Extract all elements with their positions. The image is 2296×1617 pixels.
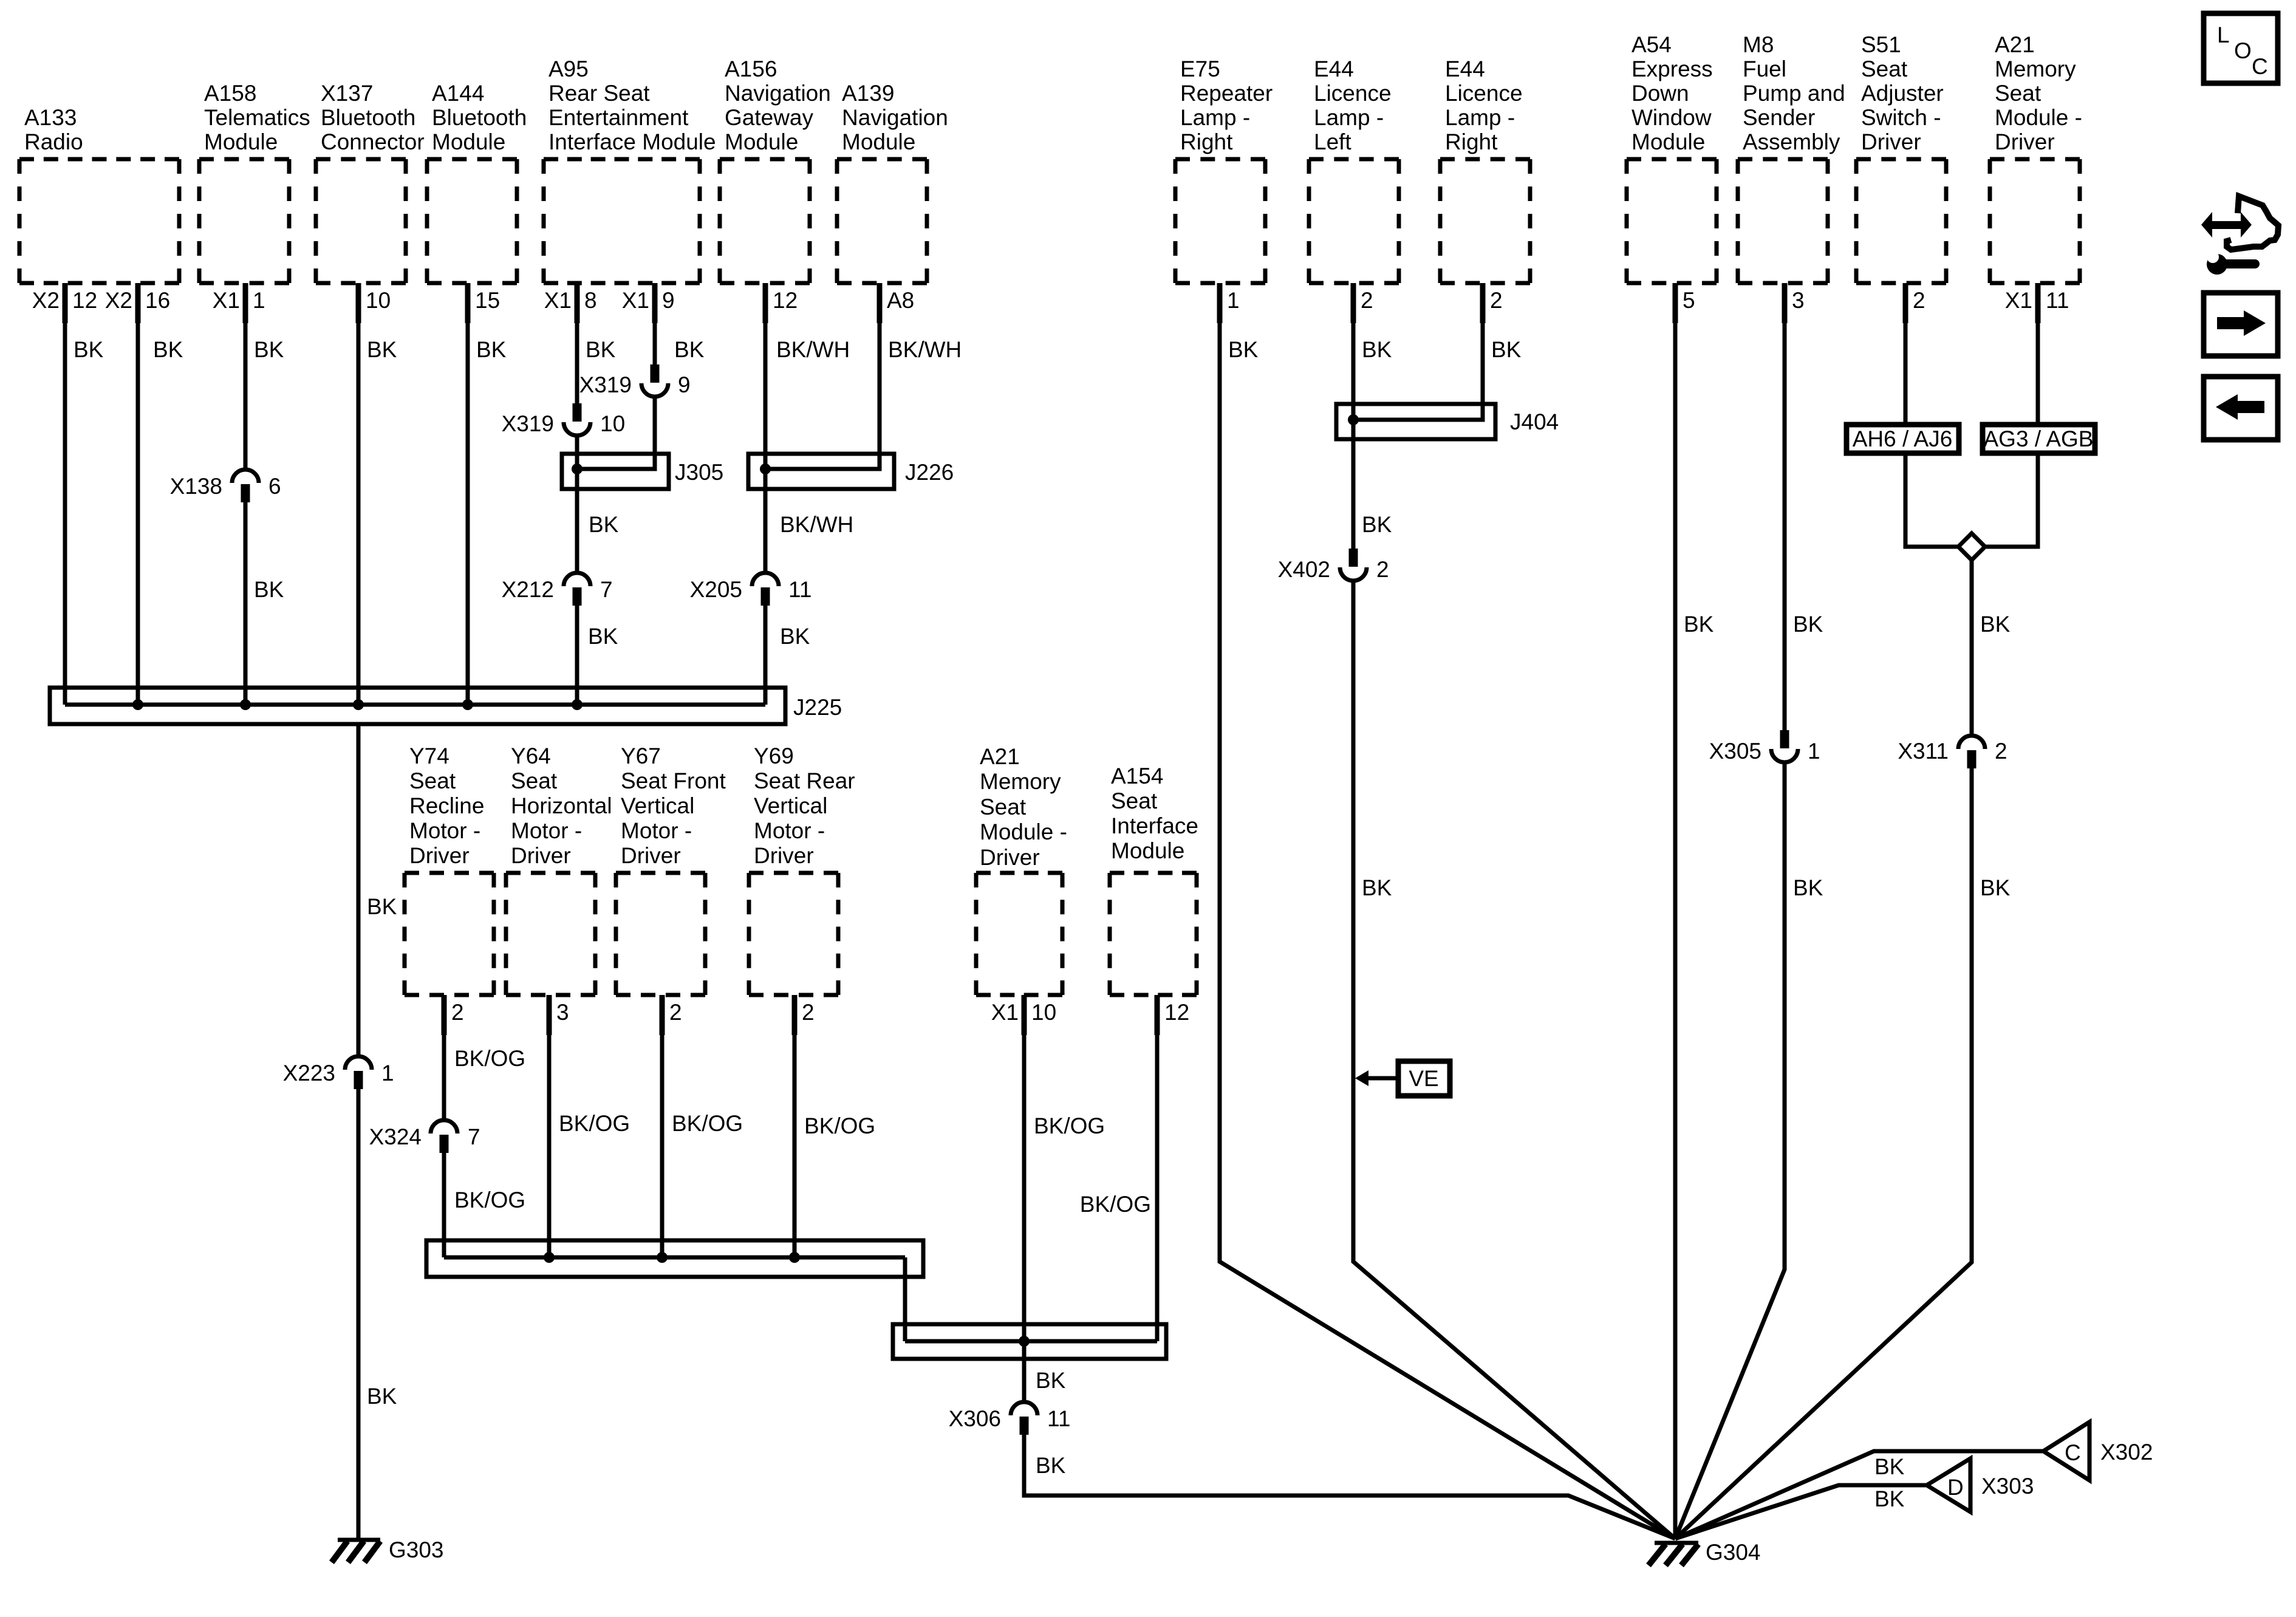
svg-text:C: C <box>2252 54 2268 79</box>
svg-text:Sender: Sender <box>1743 105 1815 130</box>
svg-text:Assembly: Assembly <box>1743 129 1840 154</box>
module Y64 Seat Horizontal Motor - Driver (dashed box) <box>506 744 612 995</box>
svg-text:BK: BK <box>254 577 284 602</box>
svg-text:10: 10 <box>1031 1000 1056 1025</box>
svg-text:Motor -: Motor - <box>754 818 825 843</box>
svg-text:BK: BK <box>1362 337 1392 362</box>
inline connector X402 pin 2 <box>1278 549 1389 582</box>
svg-text:Driver: Driver <box>511 843 571 868</box>
svg-text:Driver: Driver <box>621 843 681 868</box>
svg-text:Adjuster: Adjuster <box>1861 81 1944 106</box>
module A21 Memory Seat Module - Driver lower (dashed box) <box>976 744 1067 995</box>
svg-text:BK/OG: BK/OG <box>559 1111 630 1136</box>
svg-text:X2: X2 <box>105 288 132 313</box>
module A154 Seat Interface Module (dashed box) <box>1110 764 1198 995</box>
svg-text:Module -: Module - <box>1995 105 2082 130</box>
svg-text:Recline: Recline <box>409 793 484 818</box>
svg-text:2: 2 <box>669 1000 682 1025</box>
junction dot A21 on bus2 <box>1019 1336 1030 1347</box>
svg-text:BK: BK <box>476 337 507 362</box>
wire A154-12 to bus2 <box>1155 995 1160 1341</box>
wire X138 to J225 <box>244 502 248 705</box>
svg-text:BK: BK <box>1874 1454 1905 1479</box>
wire A95 X1-9 to X319 <box>653 283 657 364</box>
svg-text:2: 2 <box>1376 557 1389 582</box>
svg-text:Pump and: Pump and <box>1743 81 1845 106</box>
module A144 Bluetooth Module (dashed box) <box>427 81 527 283</box>
svg-text:15: 15 <box>475 288 500 313</box>
svg-text:Memory: Memory <box>980 769 1061 794</box>
svg-text:Seat: Seat <box>1995 81 2041 106</box>
svg-text:Module: Module <box>432 129 505 154</box>
svg-text:Down: Down <box>1631 81 1689 106</box>
fuse box code AH6 / AJ6 <box>1847 425 1959 453</box>
wire A54-5 to G304 <box>1673 283 1678 1539</box>
svg-text:X311: X311 <box>1898 739 1949 764</box>
svg-text:X402: X402 <box>1278 557 1330 582</box>
wire E44 right pin 2 into J404 <box>1356 283 1483 420</box>
svg-text:J225: J225 <box>793 695 842 720</box>
svg-text:Module: Module <box>725 129 798 154</box>
ground G304 <box>1649 1540 1761 1565</box>
svg-text:BK: BK <box>1793 612 1823 637</box>
svg-text:11: 11 <box>788 577 811 602</box>
svg-text:Driver: Driver <box>1861 129 1921 154</box>
wire Y64-3 to Y-bus <box>547 995 552 1257</box>
svg-text:BK: BK <box>73 337 104 362</box>
svg-text:16: 16 <box>145 288 170 313</box>
svg-text:D: D <box>1947 1475 1964 1500</box>
svg-text:Driver: Driver <box>754 843 814 868</box>
svg-text:BK: BK <box>780 624 810 649</box>
splice J226 <box>748 454 954 489</box>
svg-text:E44: E44 <box>1445 56 1485 81</box>
module A133 Radio (dashed box) <box>19 105 179 283</box>
wire A156-12 to J226 <box>764 283 768 571</box>
wire Y69-2 to Y-bus <box>793 995 797 1257</box>
module E75 Repeater Lamp - Right (dashed box) <box>1175 56 1273 283</box>
module A21 Memory Seat Module - Driver (dashed box) <box>1990 32 2082 283</box>
module S51 Seat Adjuster Switch - Driver (dashed box) <box>1856 32 1946 283</box>
junction dot A133-16 on J225 <box>132 699 143 710</box>
svg-text:Motor -: Motor - <box>511 818 582 843</box>
svg-text:9: 9 <box>678 372 691 397</box>
svg-text:Driver: Driver <box>409 843 470 868</box>
svg-text:BK/OG: BK/OG <box>804 1113 875 1138</box>
svg-text:6: 6 <box>268 474 281 499</box>
svg-text:BK: BK <box>1684 612 1714 637</box>
junction dot X137 on J225 <box>353 699 364 710</box>
svg-text:Rear Seat: Rear Seat <box>548 81 650 106</box>
svg-text:Repeater: Repeater <box>1180 81 1273 106</box>
svg-text:Right: Right <box>1180 129 1233 154</box>
junction dot Y64 <box>544 1252 555 1263</box>
svg-text:Y69: Y69 <box>754 744 794 768</box>
svg-text:BK: BK <box>1228 337 1259 362</box>
inline connector X212 pin 7 <box>502 573 613 606</box>
svg-text:X212: X212 <box>502 577 554 602</box>
svg-text:Horizontal: Horizontal <box>511 793 612 818</box>
wire X402 to G304 <box>1353 583 1675 1539</box>
module A139 Navigation Module (dashed box) <box>837 81 948 283</box>
svg-text:Licence: Licence <box>1445 81 1523 106</box>
svg-text:BK/OG: BK/OG <box>672 1111 743 1136</box>
inline connector X319 pin 9 <box>579 364 691 397</box>
svg-text:E44: E44 <box>1314 56 1354 81</box>
wire E44 left pin 2 through J404 <box>1351 283 1356 549</box>
svg-text:X138: X138 <box>170 474 222 499</box>
svg-text:AG3 / AGB: AG3 / AGB <box>1984 426 2094 451</box>
inline connector X306 pin 11 <box>949 1402 1071 1435</box>
ground bus 2 <box>893 1324 1166 1359</box>
wire J225 to X223 <box>357 724 361 1055</box>
vehicle icon with arrows and wrench <box>2201 196 2278 275</box>
svg-text:Module: Module <box>204 129 278 154</box>
pin X2 16 of A133 <box>105 288 170 313</box>
svg-text:Motor -: Motor - <box>621 818 692 843</box>
svg-text:BK/WH: BK/WH <box>776 337 850 362</box>
svg-text:E75: E75 <box>1180 56 1220 81</box>
pin X1 9 of A95 <box>622 288 675 313</box>
svg-text:BK: BK <box>674 337 705 362</box>
module X137 Bluetooth Connector (dashed box) <box>316 81 425 283</box>
svg-text:A144: A144 <box>432 81 484 106</box>
ground bus of seat motors <box>426 1240 923 1277</box>
svg-text:BK: BK <box>586 337 616 362</box>
LOC legend box <box>2204 13 2278 83</box>
svg-text:Driver: Driver <box>980 845 1040 870</box>
wire E75-1 down to G304 <box>1220 283 1675 1539</box>
svg-text:3: 3 <box>556 1000 569 1025</box>
svg-text:X303: X303 <box>1981 1474 2034 1499</box>
svg-text:BK: BK <box>254 337 284 362</box>
wire to connector D X303 <box>1675 1485 1927 1539</box>
svg-text:A156: A156 <box>725 56 777 81</box>
svg-text:Bluetooth: Bluetooth <box>321 105 415 130</box>
module A95 Rear Seat Entertainment Interface Module (dashed box) <box>544 56 716 283</box>
wire M8-3 to X305 <box>1783 283 1787 730</box>
svg-text:X319: X319 <box>502 411 554 436</box>
pin X2 12 of A133 <box>32 288 97 313</box>
svg-text:Interface: Interface <box>1111 813 1198 838</box>
junction dot X212 wire on J225 <box>572 699 583 710</box>
pin X1 11 of A21 <box>2005 288 2069 313</box>
svg-text:BK: BK <box>367 337 397 362</box>
svg-text:BK: BK <box>1980 875 2011 900</box>
svg-text:BK: BK <box>1362 512 1392 537</box>
wire A133 X2-16 to J225 <box>136 283 140 705</box>
svg-text:Module: Module <box>1631 129 1705 154</box>
wire Y74-2 to X324 <box>442 995 446 1118</box>
svg-text:2: 2 <box>1490 288 1503 313</box>
svg-text:Seat: Seat <box>511 768 558 793</box>
svg-text:A21: A21 <box>1995 32 2035 57</box>
svg-text:A95: A95 <box>548 56 589 81</box>
merge diamond <box>1958 533 1985 560</box>
svg-text:1: 1 <box>381 1061 394 1085</box>
svg-text:AH6 / AJ6: AH6 / AJ6 <box>1853 426 1953 451</box>
svg-text:Y74: Y74 <box>409 744 449 768</box>
svg-text:Seat Front: Seat Front <box>621 768 726 793</box>
svg-text:Fuel: Fuel <box>1743 56 1786 81</box>
svg-text:Licence: Licence <box>1314 81 1392 106</box>
svg-text:A154: A154 <box>1111 764 1163 788</box>
svg-text:Seat: Seat <box>980 795 1027 819</box>
inline connector X311 pin 2 <box>1898 736 2007 768</box>
wire X306 to G304 <box>1024 1435 1675 1539</box>
svg-text:BK/OG: BK/OG <box>1080 1192 1151 1217</box>
svg-text:Bluetooth: Bluetooth <box>432 105 527 130</box>
svg-text:X205: X205 <box>690 577 742 602</box>
svg-text:1: 1 <box>1808 739 1820 764</box>
svg-text:Y67: Y67 <box>621 744 661 768</box>
junction dot Y69 <box>789 1252 800 1263</box>
svg-text:Navigation: Navigation <box>725 81 831 106</box>
svg-text:X319: X319 <box>579 372 632 397</box>
svg-text:BK: BK <box>1036 1368 1066 1393</box>
svg-text:Seat: Seat <box>1111 788 1158 813</box>
svg-text:C: C <box>2065 1440 2081 1465</box>
svg-text:Telematics: Telematics <box>204 105 310 130</box>
pin X1 1 of A158 <box>213 288 265 313</box>
svg-text:J305: J305 <box>675 460 723 485</box>
svg-text:X306: X306 <box>949 1406 1001 1431</box>
svg-text:7: 7 <box>600 577 613 602</box>
inline connector X319 pin 10 <box>502 403 626 436</box>
inline connector X138 pin 6 <box>170 470 281 502</box>
svg-text:X1: X1 <box>544 288 572 313</box>
wire A21 X1-11 to diamond <box>1984 283 2038 547</box>
wire X311 to G304 <box>1675 768 1972 1539</box>
svg-text:X1: X1 <box>2005 288 2032 313</box>
svg-text:8: 8 <box>584 288 597 313</box>
svg-text:J404: J404 <box>1510 409 1559 434</box>
pin X1 8 of A95 <box>544 288 597 313</box>
svg-text:A133: A133 <box>24 105 77 130</box>
svg-text:BK: BK <box>153 337 183 362</box>
svg-text:X1: X1 <box>213 288 240 313</box>
ground G303 <box>332 1537 444 1562</box>
svg-text:7: 7 <box>468 1124 480 1149</box>
svg-text:BK: BK <box>1793 875 1823 900</box>
svg-text:A158: A158 <box>204 81 256 106</box>
inline connector X305 pin 1 <box>1709 730 1820 764</box>
wire A144-15 to J225 <box>466 283 470 705</box>
svg-text:Switch -: Switch - <box>1861 105 1941 130</box>
svg-text:BK: BK <box>1874 1486 1905 1511</box>
svg-text:Window: Window <box>1631 105 1712 130</box>
module Y69 Seat Rear Vertical Motor - Driver (dashed box) <box>749 744 855 995</box>
wire X324 to Y-bus <box>442 1153 446 1257</box>
pin X1 10 of A21 lower <box>991 1000 1056 1025</box>
svg-text:BK: BK <box>588 624 618 649</box>
svg-text:Memory: Memory <box>1995 56 2076 81</box>
wire to connector C X302 <box>1675 1451 2043 1539</box>
svg-text:BK/OG: BK/OG <box>454 1188 525 1212</box>
module A54 Express Down Window Module (dashed box) <box>1627 32 1717 283</box>
svg-text:X324: X324 <box>369 1124 422 1149</box>
svg-text:5: 5 <box>1683 288 1695 313</box>
svg-text:Vertical: Vertical <box>754 793 827 818</box>
inline connector X324 pin 7 <box>369 1120 480 1153</box>
svg-text:BK: BK <box>1980 612 2011 637</box>
wire A21 lower X1-10 down <box>1022 995 1027 1400</box>
svg-text:2: 2 <box>1913 288 1925 313</box>
wire X319-9 down into J305 <box>579 398 655 469</box>
svg-text:M8: M8 <box>1743 32 1774 57</box>
svg-text:10: 10 <box>366 288 391 313</box>
wire X223 to G303 <box>357 1089 361 1540</box>
svg-text:Express: Express <box>1631 56 1713 81</box>
wire Y67-2 to Y-bus <box>660 995 665 1257</box>
svg-text:Left: Left <box>1314 129 1351 154</box>
svg-text:Connector: Connector <box>321 129 425 154</box>
svg-text:2: 2 <box>1361 288 1373 313</box>
svg-text:12: 12 <box>1164 1000 1189 1025</box>
svg-text:Interface Module: Interface Module <box>548 129 716 154</box>
svg-text:Module: Module <box>1111 838 1184 863</box>
splice J305 <box>562 454 723 489</box>
svg-text:3: 3 <box>1792 288 1805 313</box>
wire Y-bus jog to seat bus 2 <box>903 1257 907 1341</box>
svg-text:10: 10 <box>600 411 625 436</box>
svg-text:Right: Right <box>1445 129 1498 154</box>
wire A158 X1-1 to X138 <box>244 283 248 468</box>
svg-text:Lamp -: Lamp - <box>1445 105 1515 130</box>
connector pin stubs <box>63 283 2041 1035</box>
wire J305 to X212 <box>575 489 579 571</box>
svg-text:Entertainment: Entertainment <box>548 105 689 130</box>
svg-text:12: 12 <box>72 288 97 313</box>
wire X205 to J225 <box>764 606 768 705</box>
module Y74 Seat Recline Motor - Driver (dashed box) <box>405 744 494 995</box>
svg-text:X2: X2 <box>32 288 60 313</box>
svg-text:11: 11 <box>1047 1406 1070 1431</box>
svg-text:A54: A54 <box>1631 32 1672 57</box>
svg-text:2: 2 <box>1995 739 2007 764</box>
svg-text:BK: BK <box>367 894 397 919</box>
svg-text:X302: X302 <box>2100 1440 2153 1465</box>
svg-text:A139: A139 <box>842 81 894 106</box>
svg-text:Module: Module <box>842 129 915 154</box>
svg-text:Seat: Seat <box>409 768 456 793</box>
svg-text:BK: BK <box>1362 875 1392 900</box>
svg-text:BK: BK <box>589 512 619 537</box>
wire S51-2 to diamond <box>1905 283 1959 547</box>
backward arrow box <box>2204 377 2278 440</box>
svg-text:L: L <box>2217 22 2230 47</box>
svg-text:Module -: Module - <box>980 819 1067 844</box>
module E44 Licence Lamp - Right (dashed box) <box>1440 56 1530 283</box>
module A156 Navigation Gateway Module (dashed box) <box>720 56 831 283</box>
svg-text:Vertical: Vertical <box>621 793 694 818</box>
svg-text:O: O <box>2234 38 2252 63</box>
svg-text:BK/WH: BK/WH <box>888 337 962 362</box>
svg-text:Lamp -: Lamp - <box>1314 105 1384 130</box>
svg-text:BK: BK <box>367 1384 397 1409</box>
svg-text:Seat Rear: Seat Rear <box>754 768 855 793</box>
junction dot in J305 <box>572 463 583 474</box>
svg-text:Y64: Y64 <box>511 744 551 768</box>
svg-text:A21: A21 <box>980 744 1020 769</box>
svg-text:BK/OG: BK/OG <box>1034 1113 1105 1138</box>
svg-text:G304: G304 <box>1706 1540 1761 1565</box>
wire A133 X2-12 to J225 <box>63 283 67 705</box>
svg-text:12: 12 <box>773 288 798 313</box>
svg-text:BK: BK <box>1036 1453 1066 1478</box>
svg-text:BK: BK <box>1491 337 1522 362</box>
connector triangle C X302 <box>2043 1422 2153 1480</box>
svg-text:G303: G303 <box>389 1537 444 1562</box>
wire X212 to J225 <box>575 606 579 705</box>
fuse box code AG3 / AGB <box>1983 425 2095 453</box>
wire X319-10 to J305 <box>575 437 579 571</box>
svg-text:X137: X137 <box>321 81 373 106</box>
module A158 Telematics Module (dashed box) <box>199 81 310 283</box>
svg-text:Gateway: Gateway <box>725 105 814 130</box>
splice J404 <box>1336 404 1559 439</box>
junction dot A158 on J225 <box>240 699 251 710</box>
inline connector X223 pin 1 <box>283 1056 394 1089</box>
svg-text:BK/WH: BK/WH <box>780 512 853 537</box>
junction dot in J226 <box>760 463 771 474</box>
forward arrow box <box>2204 293 2278 356</box>
connector triangle D X303 <box>1927 1458 2034 1512</box>
wire A95 X1-8 to X319 <box>575 283 579 403</box>
module E44 Licence Lamp - Left (dashed box) <box>1309 56 1399 283</box>
svg-text:Seat: Seat <box>1861 56 1908 81</box>
ground bus J225 <box>50 688 842 724</box>
svg-text:J226: J226 <box>905 460 954 485</box>
svg-text:1: 1 <box>253 288 265 313</box>
svg-text:Motor -: Motor - <box>409 818 480 843</box>
svg-text:X305: X305 <box>1709 739 1761 764</box>
svg-text:A8: A8 <box>887 288 914 313</box>
wire X137-10 to J225 <box>357 283 361 705</box>
svg-text:X223: X223 <box>283 1061 335 1085</box>
svg-text:X1: X1 <box>991 1000 1019 1025</box>
svg-text:BK/OG: BK/OG <box>454 1046 525 1071</box>
wire X305 to G304 <box>1675 764 1785 1539</box>
VE take-out arrow <box>1355 1061 1450 1096</box>
svg-text:2: 2 <box>451 1000 464 1025</box>
svg-text:2: 2 <box>802 1000 815 1025</box>
svg-text:Driver: Driver <box>1995 129 2055 154</box>
svg-text:X1: X1 <box>622 288 649 313</box>
svg-text:11: 11 <box>2046 288 2069 313</box>
wire diamond to X311 <box>1970 560 1974 734</box>
svg-text:1: 1 <box>1227 288 1240 313</box>
inline connector X205 pin 11 <box>690 573 812 606</box>
svg-text:9: 9 <box>662 288 675 313</box>
svg-text:Lamp -: Lamp - <box>1180 105 1250 130</box>
junction dot Y67 <box>657 1252 668 1263</box>
module Y67 Seat Front Vertical Motor - Driver (dashed box) <box>616 744 726 995</box>
wire A139-A8 into J226 <box>768 283 880 469</box>
module M8 Fuel Pump and Sender Assembly (dashed box) <box>1738 32 1845 283</box>
svg-text:Navigation: Navigation <box>842 105 948 130</box>
svg-text:S51: S51 <box>1861 32 1901 57</box>
svg-text:VE: VE <box>1409 1066 1438 1091</box>
junction dot A144 on J225 <box>462 699 473 710</box>
junction dot in J404 <box>1348 414 1359 425</box>
svg-text:Radio: Radio <box>24 129 83 154</box>
